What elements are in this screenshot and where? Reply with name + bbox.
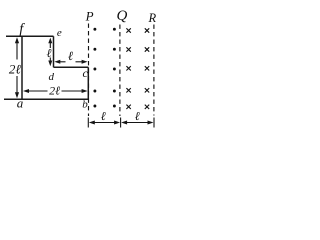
svg-text:2ℓ: 2ℓ: [49, 84, 60, 98]
bottom tick R: [153, 118, 155, 128]
field dots column 2: [113, 28, 116, 108]
svg-text:b: b: [82, 99, 88, 111]
svg-text:e: e: [57, 27, 62, 39]
bottom arrow l PQ: [89, 121, 120, 125]
svg-text:P: P: [85, 8, 94, 23]
svg-text:a: a: [17, 96, 24, 111]
bottom arrow l QR: [121, 121, 153, 125]
boundary line R: [153, 25, 155, 116]
boundary line P: [88, 24, 90, 117]
svg-text:2ℓ: 2ℓ: [9, 62, 22, 77]
bottom tick Q: [120, 118, 122, 128]
svg-text:c: c: [83, 66, 89, 80]
svg-text:R: R: [147, 11, 156, 25]
dimension l vertical arrow (ed): [48, 38, 52, 67]
svg-text:ℓ: ℓ: [135, 109, 140, 123]
field crosses column 1: [126, 28, 130, 109]
svg-text:Q: Q: [116, 8, 127, 24]
wire cd middle: [54, 66, 89, 68]
wire fa left: [21, 36, 23, 99]
wire fe top: [6, 35, 54, 37]
wire de inner: [53, 36, 55, 67]
bottom tick P: [87, 118, 89, 128]
svg-text:ℓ: ℓ: [101, 109, 106, 123]
boundary line Q: [119, 25, 121, 117]
dimension 2l horizontal arrow (ab): [23, 89, 88, 93]
svg-text:ℓ: ℓ: [68, 49, 73, 63]
svg-text:d: d: [48, 71, 54, 83]
wire ab bottom: [4, 98, 88, 100]
wire bc right: [87, 67, 89, 99]
field crosses column 2: [145, 28, 149, 109]
dimension l horizontal arrow (dc): [54, 60, 87, 64]
dimension 2l vertical arrow: [15, 37, 19, 98]
svg-text:ℓ: ℓ: [47, 46, 52, 60]
field dots column 1: [93, 28, 96, 108]
